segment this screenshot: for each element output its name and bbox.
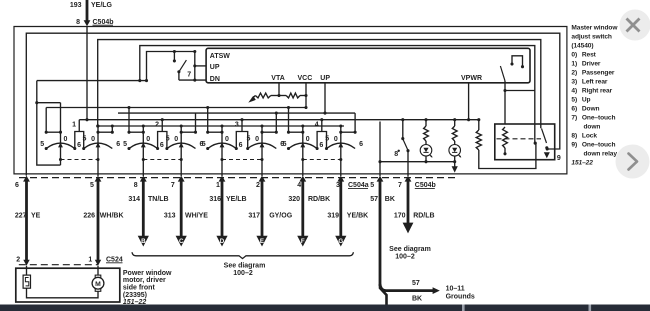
- svg-text:6: 6: [239, 142, 243, 149]
- svg-text:3): 3): [571, 78, 577, 85]
- svg-text:C504a: C504a: [348, 182, 369, 189]
- switch S7 lever: [179, 60, 187, 72]
- wire UP pin stub: [195, 65, 206, 67]
- svg-text:314: 314: [128, 196, 140, 203]
- svg-text:6: 6: [77, 142, 81, 149]
- svg-text:0: 0: [255, 136, 259, 143]
- svg-text:2: 2: [155, 121, 159, 128]
- svg-text:6: 6: [359, 141, 363, 148]
- svg-text:VCC: VCC: [298, 75, 313, 82]
- junction rail80/line E: [145, 79, 148, 82]
- wire VPWR pin drop: [468, 83, 470, 120]
- wire VCC drop: [305, 83, 307, 96]
- svg-text:8): 8): [571, 132, 577, 139]
- ground arrow 10-11: [433, 287, 440, 294]
- junction UP stub: [193, 64, 196, 67]
- mechanical link pair 2: [142, 158, 183, 161]
- svg-text:VPWR: VPWR: [461, 75, 482, 82]
- junction bus/57wire: [378, 160, 381, 163]
- wire R1-R2 link: [271, 95, 286, 97]
- mechanical link pair 1: [59, 158, 100, 161]
- junction UP/rail113: [323, 112, 326, 115]
- svg-text:B: B: [141, 238, 146, 245]
- off-page arrow E: [256, 236, 267, 247]
- wire 226 WH/BK: [97, 181, 100, 260]
- junction pin8/VPWR rail: [85, 118, 88, 121]
- svg-text:5: 5: [247, 135, 251, 142]
- wire line D (to relay common): [140, 46, 535, 144]
- contact switch8 out: [406, 149, 409, 152]
- svg-text:Rest: Rest: [582, 51, 597, 58]
- junction VPWR/rail: [467, 118, 470, 121]
- svg-text:Power window: Power window: [123, 270, 172, 277]
- wire UP pin drop to rail113: [324, 83, 326, 113]
- svg-text:YE/LG: YE/LG: [91, 2, 113, 9]
- svg-text:One–touch: One–touch: [582, 114, 616, 121]
- svg-text:5): 5): [571, 96, 577, 103]
- svg-text:8: 8: [76, 19, 80, 26]
- wire 57 BK (vertical): [379, 181, 382, 286]
- svg-text:Right rear: Right rear: [582, 87, 613, 94]
- svg-text:Master window: Master window: [571, 24, 618, 31]
- contact switch8 top: [401, 137, 404, 140]
- labels 5-0-6 rocker 3B: [247, 135, 285, 147]
- svg-text:E: E: [260, 238, 264, 245]
- svg-text:D: D: [220, 238, 225, 245]
- wire R2 to VCC: [300, 95, 306, 97]
- wire LED2 drop: [454, 156, 456, 166]
- labels 5-0-6 rocker 4A: [283, 136, 324, 149]
- mechanical link pair 3: [220, 158, 263, 161]
- outer switch assembly box (line A): [14, 27, 567, 174]
- svg-text:320: 320: [288, 196, 300, 203]
- contact switch7 upper: [173, 59, 176, 62]
- bottom toolbar: [0, 305, 650, 311]
- wire 170 RD/LB: [407, 181, 410, 223]
- switch rocker 1B: [84, 124, 114, 176]
- svg-text:5: 5: [202, 141, 206, 148]
- wire LED ground bus: [380, 161, 456, 163]
- relay coil: [503, 127, 508, 155]
- connector pin 5 arrow: [377, 176, 384, 182]
- svg-text:5: 5: [40, 141, 44, 148]
- svg-text:316: 316: [209, 196, 221, 203]
- svg-text:F: F: [301, 238, 305, 245]
- junction relay common: [534, 142, 537, 145]
- wire switch7 pivot drop: [178, 72, 180, 80]
- off-page arrow F: [297, 236, 308, 247]
- junction relay contact feed: [546, 147, 549, 150]
- wire 57 BK elbow: [380, 284, 434, 291]
- wire 227 YE: [25, 181, 28, 260]
- svg-text:0: 0: [146, 136, 150, 143]
- svg-text:Grounds: Grounds: [446, 294, 475, 301]
- svg-text:0: 0: [306, 136, 310, 143]
- svg-text:M: M: [95, 281, 101, 288]
- junction VCC/rail107: [304, 106, 307, 109]
- switch S8 lever: [403, 139, 408, 151]
- labels 5-0-6 rocker 3A: [202, 136, 243, 149]
- svg-text:1: 1: [72, 121, 76, 128]
- node 3 (motor feed bracket): [236, 118, 249, 150]
- labels 5-0-6 rocker 1B: [83, 135, 121, 147]
- svg-text:0: 0: [225, 136, 229, 143]
- switch rocker 3B: [248, 112, 278, 176]
- svg-text:226: 226: [83, 213, 95, 220]
- wire switch8 to pin: [407, 151, 409, 176]
- relay switch lever: [542, 129, 547, 144]
- wire VCC to up-rail: [305, 96, 307, 108]
- connector line C504 (dashed): [19, 177, 459, 179]
- connector pin 7 arrow: [178, 176, 185, 182]
- svg-text:BK: BK: [412, 296, 422, 303]
- connector pin 8 arrow: [140, 176, 147, 182]
- labels 5-0-6 rocker 1A: [40, 136, 81, 149]
- labels 5-0-6 rocker 4B: [325, 135, 363, 147]
- svg-text:7): 7): [571, 114, 577, 121]
- legend master window adjust switch: [571, 24, 618, 166]
- svg-text:8: 8: [134, 182, 138, 189]
- svg-text:151–22: 151–22: [571, 160, 593, 167]
- circuit breaker CB: [23, 275, 30, 288]
- svg-text:TN/LB: TN/LB: [148, 196, 169, 203]
- svg-text:4: 4: [315, 121, 319, 128]
- wire to arrow D: [221, 181, 224, 236]
- node 2 (motor feed bracket): [158, 118, 169, 150]
- svg-text:Down: Down: [582, 105, 600, 112]
- wire loop upper link: [37, 102, 61, 104]
- junction LED1/bus: [424, 160, 427, 163]
- svg-text:5: 5: [166, 135, 170, 142]
- labels 5-0-6 rocker 2A: [123, 136, 164, 149]
- switch rocker 4B: [327, 113, 357, 176]
- wire rail UP (y107.5): [46, 107, 306, 109]
- svg-text:G: G: [338, 238, 343, 245]
- connector pin 6 arrow: [23, 176, 30, 182]
- contact dot a: [510, 62, 513, 65]
- svg-text:VTA: VTA: [271, 75, 284, 82]
- wire rail lock (y126): [98, 125, 344, 127]
- switch one-touch lever: [500, 66, 505, 81]
- svg-text:170: 170: [394, 213, 406, 220]
- svg-text:5: 5: [123, 141, 127, 148]
- connector pin 5 arrow: [95, 176, 102, 182]
- svg-text:100–2: 100–2: [395, 254, 415, 261]
- svg-text:100–2: 100–2: [233, 270, 253, 277]
- svg-text:9: 9: [557, 155, 561, 162]
- svg-text:WH/YE: WH/YE: [185, 213, 208, 220]
- relay contact arrow: [544, 152, 550, 158]
- svg-text:0: 0: [64, 136, 68, 143]
- wire line E (to ATSW switch): [147, 52, 195, 81]
- wire wiper to R1: [252, 96, 255, 99]
- contact switch7 pivot: [177, 70, 180, 73]
- connector pin 2 arrow: [259, 176, 266, 182]
- labels 5-0-6 rocker 2B: [166, 135, 204, 147]
- junction switch7 riser top: [193, 50, 196, 53]
- svg-text:0: 0: [174, 136, 178, 143]
- junction LED2/bus: [453, 160, 456, 163]
- relay armature link: [497, 138, 542, 140]
- svg-text:0: 0: [91, 136, 95, 143]
- svg-text:down relay: down relay: [584, 150, 618, 157]
- svg-text:6: 6: [160, 142, 164, 149]
- svg-text:RD/BK: RD/BK: [308, 196, 330, 203]
- svg-text:One–touch: One–touch: [582, 141, 616, 148]
- svg-text:2: 2: [16, 256, 20, 263]
- wire to arrow G: [339, 181, 342, 236]
- switch rocker 2B: [167, 113, 197, 176]
- off-page arrow D: [216, 236, 227, 247]
- connector arrow C504b pin 8 (down): [84, 20, 91, 26]
- svg-text:10–11: 10–11: [446, 285, 465, 292]
- wire rail y80: [37, 80, 147, 82]
- svg-text:Up: Up: [582, 96, 591, 103]
- svg-text:GY/OG: GY/OG: [269, 213, 293, 220]
- motor M1 (window motor): [95, 275, 101, 278]
- svg-text:See diagram: See diagram: [224, 263, 266, 270]
- wire to arrow B: [142, 181, 145, 236]
- svg-text:9): 9): [571, 141, 577, 148]
- LED D1 (illumination): [420, 145, 432, 158]
- relay box K1 (one-touch down relay): [495, 124, 555, 160]
- svg-text:down: down: [584, 123, 601, 130]
- svg-text:7: 7: [187, 72, 191, 79]
- svg-text:DN: DN: [210, 76, 220, 83]
- svg-text:YE/BK: YE/BK: [347, 213, 368, 220]
- off-page arrow C: [176, 236, 187, 247]
- switch rocker 1A: [45, 103, 77, 165]
- wire line C (pin5 riser to relay lever): [98, 40, 541, 129]
- wire left loop to driver rocker: [37, 81, 61, 166]
- wire to arrow C: [180, 181, 183, 236]
- wire 57 BK tail to G910: [380, 284, 387, 306]
- off-page arrow G: [335, 236, 346, 247]
- connector arrow C524 pin2: [23, 260, 29, 266]
- svg-text:UP: UP: [320, 75, 330, 82]
- svg-text:2: 2: [256, 182, 260, 189]
- svg-text:Driver: Driver: [582, 60, 601, 67]
- connector arrow C524 pin1: [95, 260, 101, 266]
- wire pin8 to VPWR rail: [86, 26, 88, 120]
- svg-text:7: 7: [171, 182, 175, 189]
- svg-text:57: 57: [412, 280, 420, 287]
- junction switch8 stub: [401, 118, 404, 121]
- junction DN link: [193, 79, 196, 82]
- svg-text:313: 313: [164, 213, 176, 220]
- wire switch8 stub: [402, 120, 404, 139]
- svg-text:C: C: [179, 238, 184, 245]
- off-page arrow B: [138, 236, 149, 247]
- contact dot b: [521, 65, 524, 68]
- svg-text:1: 1: [216, 182, 220, 189]
- resistor R1 (VTA-VCC): [255, 93, 270, 98]
- wire LED1 drop: [425, 156, 427, 162]
- svg-text:57: 57: [370, 196, 378, 203]
- svg-text:6: 6: [319, 142, 323, 149]
- contact dot near label 8: [398, 150, 400, 152]
- svg-text:C504b: C504b: [415, 182, 436, 189]
- svg-text:5: 5: [90, 182, 94, 189]
- svg-text:1: 1: [88, 256, 92, 263]
- junction VCC/pot: [304, 94, 307, 97]
- svg-text:UP: UP: [210, 64, 220, 71]
- motor box (power window motor driver side front): [16, 268, 120, 302]
- svg-text:6: 6: [15, 182, 19, 189]
- svg-text:YE/LB: YE/LB: [226, 196, 247, 203]
- svg-text:YE: YE: [31, 213, 41, 220]
- switch rocker 3A: [206, 106, 238, 176]
- wire line B (pin6 to relay contact): [26, 33, 560, 175]
- connector line C524 (dashed): [19, 264, 98, 266]
- svg-text:5: 5: [370, 182, 374, 189]
- resistor R3 (LED series): [424, 118, 429, 145]
- svg-text:3: 3: [235, 121, 239, 128]
- svg-text:Left rear: Left rear: [582, 78, 608, 85]
- off-page arrow 170: [403, 223, 414, 234]
- svg-text:4: 4: [297, 182, 301, 189]
- svg-text:5: 5: [325, 135, 329, 142]
- svg-text:ATSW: ATSW: [210, 53, 230, 60]
- svg-text:0): 0): [571, 51, 577, 58]
- junction switch7 stub top: [173, 50, 176, 53]
- wire link to relay common: [505, 90, 535, 92]
- wire DN pin link: [179, 79, 206, 81]
- svg-text:4): 4): [571, 87, 577, 94]
- wire 57 BK upper (thin): [379, 122, 381, 177]
- svg-text:side front: side front: [123, 285, 156, 292]
- svg-text:6: 6: [116, 141, 120, 148]
- svg-text:317: 317: [248, 213, 260, 220]
- resistor R2 (VTA-VCC): [286, 93, 300, 98]
- svg-text:2): 2): [571, 69, 577, 76]
- junction rail80/line D: [138, 79, 141, 82]
- ground arrow LED bus: [452, 166, 458, 172]
- node 1 (motor feed bracket): [75, 120, 85, 150]
- next button: [616, 145, 650, 179]
- svg-text:(23395): (23395): [123, 292, 147, 299]
- svg-text:motor, driver: motor, driver: [123, 277, 166, 284]
- wire to arrow E: [261, 181, 264, 236]
- svg-text:Lock: Lock: [582, 132, 597, 139]
- LED D2 (illumination): [449, 145, 461, 158]
- switch rocker 2A: [127, 106, 159, 176]
- switch rocker 4A: [287, 106, 319, 176]
- junction VTA/pot: [277, 94, 280, 97]
- svg-text:0: 0: [334, 136, 338, 143]
- svg-text:8: 8: [394, 151, 398, 158]
- electronic module box U1 (ATSW): [206, 48, 530, 83]
- mechanical link pair 4: [301, 158, 342, 161]
- junction one-touch drop: [503, 89, 506, 92]
- svg-text:7: 7: [398, 182, 402, 189]
- svg-text:(14540): (14540): [571, 42, 593, 49]
- connector pin 3 arrow: [337, 176, 344, 182]
- pot wiper arrow: [248, 96, 256, 103]
- wire switch7 stub upper: [173, 52, 175, 61]
- svg-text:319: 319: [327, 213, 339, 220]
- svg-text:Passenger: Passenger: [582, 69, 615, 76]
- svg-text:WH/BK: WH/BK: [100, 213, 124, 220]
- svg-text:1): 1): [571, 60, 577, 67]
- wire VTA pin drop: [278, 83, 280, 96]
- wire switch7 right riser: [194, 52, 196, 81]
- wire pin1 to motor: [97, 266, 99, 275]
- connector pin 4 arrow: [299, 176, 306, 182]
- svg-text:193: 193: [70, 2, 82, 9]
- connector pin 7 arrow: [405, 176, 412, 182]
- node 4 (motor feed bracket): [317, 118, 328, 150]
- brace (motor wires B-G): [132, 252, 353, 258]
- resistor R4 (LED series): [452, 118, 457, 145]
- wire to arrow F: [301, 181, 304, 236]
- resistor R5 (relay): [476, 118, 481, 150]
- junction left loop: [35, 101, 38, 104]
- svg-text:5: 5: [283, 141, 287, 148]
- svg-text:5: 5: [83, 135, 87, 142]
- svg-text:BK: BK: [385, 196, 395, 203]
- svg-text:227: 227: [15, 213, 27, 220]
- wire pin2 to breaker: [26, 266, 28, 275]
- svg-text:adjust switch: adjust switch: [571, 33, 612, 40]
- wire one-touch drop: [504, 81, 506, 124]
- wire R5 to relay common: [479, 143, 536, 168]
- svg-text:6): 6): [571, 105, 577, 112]
- connector pin 1 arrow: [219, 176, 226, 182]
- close button: [620, 10, 650, 41]
- wire rail DN (y113.1): [118, 112, 355, 114]
- contact hook one-touch: [512, 56, 523, 67]
- wire rail VPWR (y119.7): [79, 119, 479, 121]
- wire breaker to motor (bottom): [27, 288, 99, 298]
- svg-text:RD/LB: RD/LB: [413, 213, 434, 220]
- wire 193 YE/LG (thick feed from top): [86, 0, 89, 21]
- relay contact: [545, 146, 548, 149]
- svg-text:See diagram: See diagram: [389, 246, 431, 253]
